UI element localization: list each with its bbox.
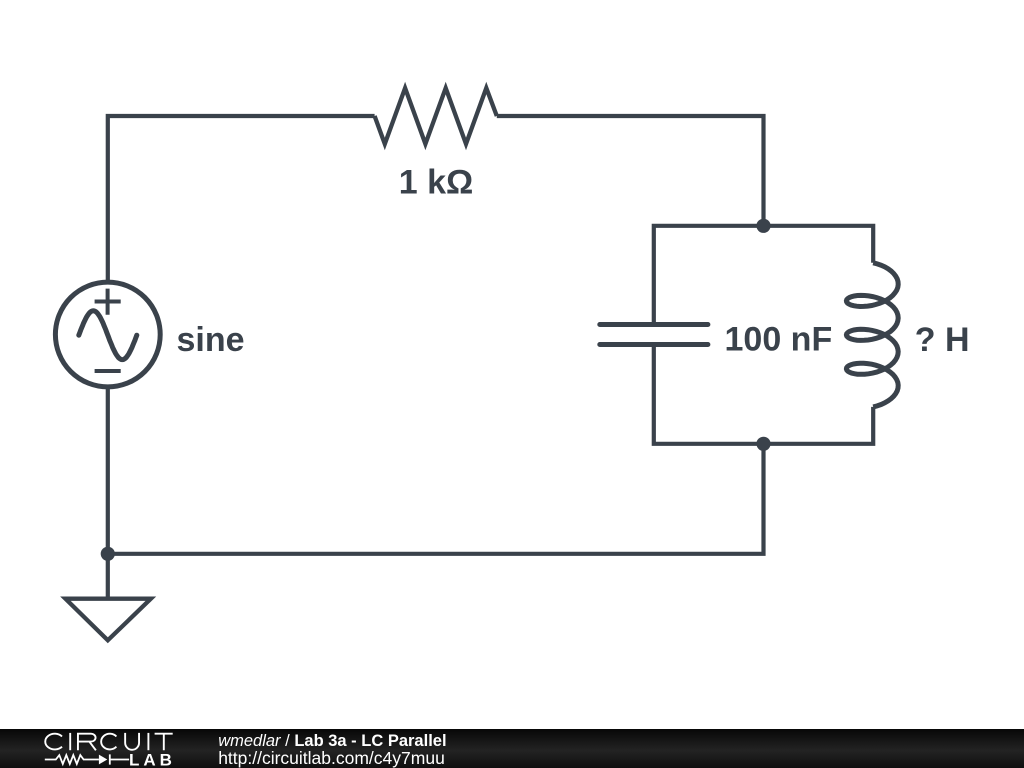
CircuitLab logo resistor-diode squiggle xyxy=(45,754,129,764)
svg-text:LAB: LAB xyxy=(129,751,176,768)
CircuitLab logo letter C xyxy=(45,733,172,750)
voltage source minus sign xyxy=(95,369,121,373)
CircuitLab logo diode triangle xyxy=(99,755,107,765)
CircuitLab logo letter R xyxy=(78,734,96,751)
wire from source top to resistor left terminal xyxy=(108,116,375,282)
junction node B dot xyxy=(756,437,770,451)
inductor L1 coil xyxy=(846,263,898,407)
resistor R1 zigzag xyxy=(375,88,497,144)
CircuitLab logo letter I xyxy=(69,733,71,750)
CircuitLab logo letter C xyxy=(101,734,116,750)
voltage source V1 circle xyxy=(55,282,160,387)
svg-text:1 kΩ: 1 kΩ xyxy=(399,164,474,202)
capacitor C1 plates xyxy=(600,325,708,345)
ground symbol triangle xyxy=(65,599,150,641)
svg-text:sine: sine xyxy=(177,321,245,359)
svg-text:100 nF: 100 nF xyxy=(725,321,833,359)
CircuitLab logo letter I xyxy=(147,733,149,750)
svg-text:? H: ? H xyxy=(915,321,970,359)
junction node A dot xyxy=(756,219,770,233)
voltage source sine glyph xyxy=(79,311,137,360)
svg-text:http://circuitlab.com/c4y7muu: http://circuitlab.com/c4y7muu xyxy=(218,748,445,768)
wire LC top rail and capacitor top lead xyxy=(654,226,873,325)
voltage source plus sign xyxy=(95,289,121,315)
wire source bottom to ground symbol xyxy=(106,388,110,599)
wire from resistor right terminal down to node A xyxy=(497,116,764,226)
junction ground node dot xyxy=(101,547,115,561)
footer bar xyxy=(0,729,1024,768)
CircuitLab logo letter U xyxy=(125,733,139,750)
wire capacitor bottom lead and LC bottom rail xyxy=(654,345,873,444)
CircuitLab logo letter T xyxy=(155,734,173,751)
wire bottom return from node B to ground node xyxy=(108,444,764,554)
